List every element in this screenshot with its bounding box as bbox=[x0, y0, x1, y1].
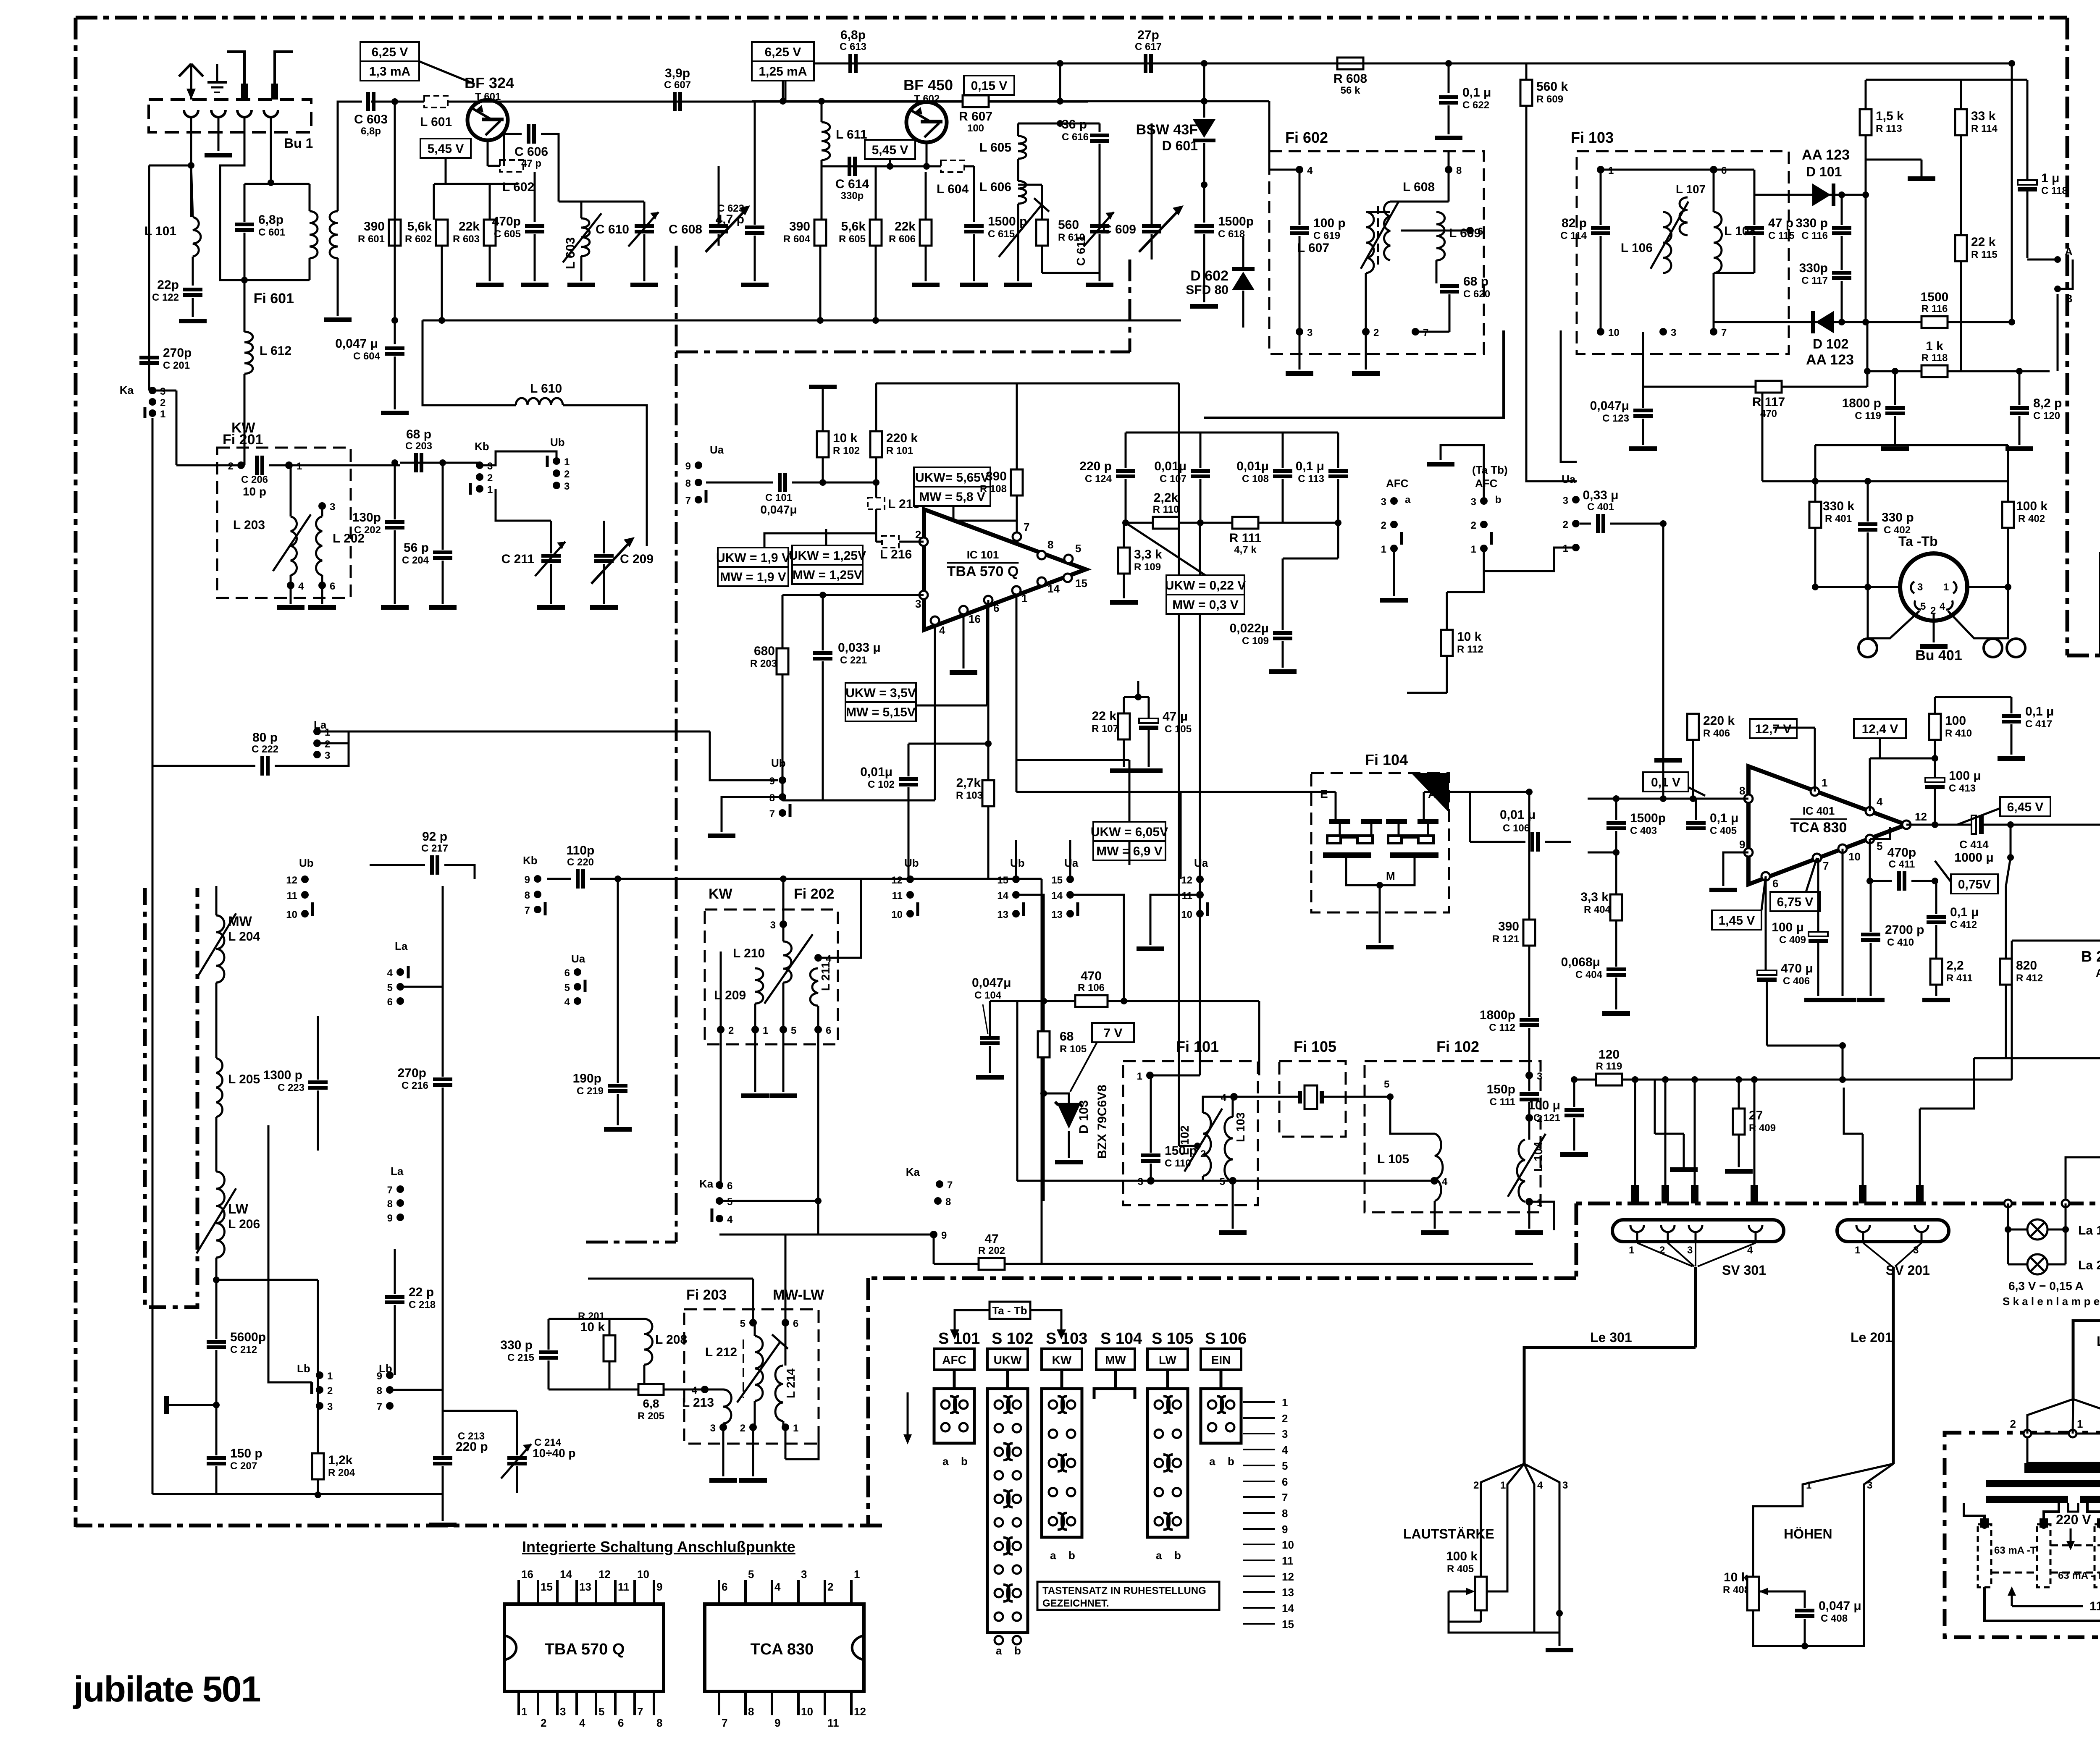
wire bbox=[1434, 1201, 1436, 1229]
junction bbox=[1201, 181, 1207, 188]
svg-text:R 103: R 103 bbox=[956, 790, 983, 801]
wire bbox=[875, 457, 877, 482]
svg-text:1: 1 bbox=[2077, 1418, 2083, 1430]
wire bbox=[1099, 144, 1101, 224]
svg-text:270p: 270p bbox=[398, 1066, 426, 1080]
svg-text:2,2: 2,2 bbox=[1946, 959, 1964, 972]
svg-text:R 402: R 402 bbox=[2018, 513, 2045, 524]
switch contact Ka1 bbox=[149, 409, 165, 420]
ground near C118 bbox=[1908, 176, 1935, 181]
svg-text:4: 4 bbox=[1537, 1480, 1543, 1491]
svg-text:1: 1 bbox=[854, 1568, 860, 1581]
svg-text:4: 4 bbox=[1442, 1176, 1448, 1187]
pin 6 Fi103 bbox=[1710, 165, 1727, 176]
wire bbox=[1179, 1145, 1197, 1147]
junction bbox=[1801, 1643, 1808, 1649]
wire bbox=[963, 614, 965, 668]
svg-text:1: 1 bbox=[327, 1371, 333, 1382]
wire bbox=[550, 521, 552, 553]
svg-text:C 405: C 405 bbox=[1710, 825, 1737, 836]
wire bbox=[1469, 792, 1471, 842]
svg-text:S 102: S 102 bbox=[992, 1330, 1033, 1347]
gang arrow C608 bbox=[706, 208, 748, 252]
resistor R103 bbox=[982, 780, 994, 806]
svg-text:R 102: R 102 bbox=[833, 445, 860, 456]
voltage label UKW= 5,65V bbox=[914, 467, 990, 506]
wire bbox=[822, 661, 824, 800]
wire bbox=[1436, 260, 1438, 283]
wire Le201 bbox=[1892, 1267, 1895, 1464]
wire bbox=[933, 1235, 935, 1264]
wire ground contact bbox=[218, 132, 220, 151]
contact bar bbox=[407, 966, 410, 978]
svg-text:6: 6 bbox=[1282, 1476, 1288, 1488]
ground C404 bbox=[1602, 1011, 1630, 1016]
slug arrow L104 bbox=[1508, 1134, 1546, 1197]
switch contact Kb9 bbox=[525, 874, 541, 886]
wire to left rail bbox=[149, 165, 191, 167]
wire bbox=[1151, 234, 1153, 260]
svg-text:L 216: L 216 bbox=[880, 548, 912, 561]
inductor bbox=[1366, 212, 1374, 273]
svg-text:Bu 1: Bu 1 bbox=[284, 136, 313, 151]
wire 605V stem bbox=[1129, 760, 1131, 822]
junction bbox=[818, 98, 825, 105]
socket contact bbox=[237, 110, 252, 117]
wire bbox=[321, 506, 323, 516]
wire bbox=[487, 100, 489, 102]
wire bbox=[1446, 656, 1448, 693]
svg-text:C 202: C 202 bbox=[354, 524, 381, 536]
pin 6 IC401 bbox=[1761, 872, 1770, 881]
wire bbox=[442, 1494, 444, 1521]
svg-text:390: 390 bbox=[1498, 920, 1519, 933]
wire bbox=[1129, 841, 1131, 865]
svg-text:C 215: C 215 bbox=[507, 1352, 534, 1363]
inductor bbox=[755, 968, 763, 1004]
wire pin6 down bbox=[987, 600, 990, 744]
wire bbox=[908, 787, 910, 879]
junction bbox=[872, 317, 879, 324]
svg-text:2: 2 bbox=[1282, 1412, 1288, 1425]
svg-text:220 k: 220 k bbox=[886, 431, 918, 445]
svg-text:C 614: C 614 bbox=[835, 177, 869, 191]
svg-text:C 409: C 409 bbox=[1779, 934, 1806, 946]
svg-text:D 101: D 101 bbox=[1806, 164, 1842, 179]
svg-text:12: 12 bbox=[598, 1568, 611, 1581]
contact bar bbox=[469, 483, 472, 495]
wire bbox=[394, 102, 396, 320]
svg-text:390: 390 bbox=[986, 469, 1007, 483]
contact bar bbox=[310, 1382, 313, 1394]
capacitor C604 bbox=[385, 346, 404, 356]
svg-text:C 607: C 607 bbox=[664, 79, 691, 91]
svg-text:a: a bbox=[996, 1644, 1002, 1657]
ground C410 bbox=[1857, 998, 1885, 1002]
junction bbox=[1135, 694, 1142, 700]
ground under L203 bbox=[277, 605, 304, 610]
resistor R118 bbox=[1921, 339, 1948, 377]
wire bbox=[973, 166, 975, 222]
svg-text:L 603: L 603 bbox=[564, 237, 577, 269]
pin 7 IC401 bbox=[1813, 854, 1821, 862]
svg-text:AFC: AFC bbox=[1475, 477, 1498, 490]
wire row 3045 bbox=[588, 1278, 753, 1280]
net line 15 bbox=[1243, 1623, 1275, 1625]
antenna plug stub 2 bbox=[271, 52, 293, 100]
wire bbox=[1713, 273, 1715, 332]
svg-text:1: 1 bbox=[487, 484, 493, 495]
svg-text:Ua: Ua bbox=[571, 952, 585, 965]
capacitor C217 bbox=[421, 830, 448, 875]
svg-text:0,068μ: 0,068μ bbox=[1561, 955, 1600, 969]
switch contact Ub3 bbox=[553, 481, 570, 492]
wire antenna contact down bbox=[190, 132, 192, 164]
ground under C610 bbox=[630, 283, 658, 287]
wire bbox=[516, 1411, 518, 1455]
wire bbox=[925, 172, 927, 220]
resistor R610 bbox=[1036, 220, 1048, 246]
inductor bbox=[1384, 202, 1390, 260]
svg-text:9: 9 bbox=[1282, 1523, 1288, 1536]
capacitor C122 bbox=[152, 278, 202, 303]
svg-text:3: 3 bbox=[327, 1401, 333, 1413]
capacitor C608 variable bbox=[709, 224, 728, 233]
slug arrow Fi103 bbox=[1651, 202, 1688, 269]
svg-text:Ub: Ub bbox=[299, 857, 314, 869]
diode D102 AA123 bbox=[1811, 311, 1834, 333]
svg-text:S 101: S 101 bbox=[938, 1330, 980, 1347]
wire bbox=[1528, 1118, 1530, 1140]
svg-text:S 105: S 105 bbox=[1152, 1330, 1193, 1347]
svg-text:R 117: R 117 bbox=[1752, 395, 1785, 409]
junction bbox=[1759, 383, 1766, 390]
pin 7 Fi602 bbox=[1412, 327, 1428, 338]
capacitor C401 bbox=[1583, 488, 1618, 533]
wire bbox=[643, 234, 646, 281]
wire bbox=[1766, 981, 1768, 1046]
svg-text:9: 9 bbox=[941, 1230, 947, 1241]
capacitor C623 bbox=[745, 225, 764, 235]
ground under R603 bbox=[476, 283, 504, 287]
wire bbox=[1525, 63, 1528, 80]
svg-text:E: E bbox=[1320, 787, 1328, 800]
pin 1 IC401 bbox=[1811, 787, 1819, 796]
wire to R602 bbox=[433, 184, 435, 220]
wire pin4 bbox=[1948, 587, 2008, 638]
svg-text:56 k: 56 k bbox=[1341, 85, 1360, 96]
junction bbox=[2062, 1226, 2069, 1233]
wire bbox=[1615, 831, 1617, 852]
wire bbox=[1934, 789, 1936, 825]
svg-text:12: 12 bbox=[1915, 810, 1927, 823]
svg-text:Le 101: Le 101 bbox=[2097, 1334, 2100, 1349]
wire bbox=[1016, 595, 1018, 760]
svg-text:IC 101: IC 101 bbox=[967, 548, 999, 561]
capacitor C616 bbox=[1090, 134, 1109, 143]
svg-text:3,3 k: 3,3 k bbox=[1134, 548, 1162, 561]
wire bbox=[244, 233, 246, 280]
junction bbox=[985, 740, 992, 747]
switch contact La9 bbox=[387, 1213, 404, 1224]
wire bbox=[785, 63, 787, 101]
ground R409 bbox=[1725, 1169, 1753, 1174]
wire bbox=[441, 246, 443, 320]
svg-text:La 1: La 1 bbox=[2078, 1224, 2100, 1237]
wire bbox=[973, 234, 975, 281]
svg-text:C 221: C 221 bbox=[840, 655, 867, 666]
junction bbox=[1864, 368, 1871, 375]
wire bbox=[549, 1389, 644, 1391]
svg-text:5: 5 bbox=[387, 982, 393, 993]
contact bar bbox=[144, 407, 147, 418]
wire bbox=[1151, 1180, 1233, 1182]
wire bbox=[782, 674, 784, 800]
ground pin9 bbox=[1709, 888, 1737, 892]
svg-text:6: 6 bbox=[1478, 226, 1483, 237]
junction bbox=[391, 317, 398, 324]
svg-text:C 112: C 112 bbox=[1489, 1022, 1515, 1033]
wire bbox=[1919, 1109, 1921, 1185]
wire bbox=[718, 234, 720, 246]
switch contact Kb1 bbox=[476, 484, 493, 495]
wire bbox=[1043, 1093, 1045, 1201]
wire down to plug bbox=[1634, 1083, 1636, 1185]
capacitor C610 variable bbox=[628, 212, 659, 246]
wire bbox=[643, 202, 646, 224]
wire bbox=[1844, 1088, 1863, 1134]
wire bbox=[754, 1401, 756, 1427]
capacitor C611 variable bbox=[1084, 212, 1114, 246]
switch contact Ka4 bbox=[716, 1214, 733, 1225]
wire bbox=[1773, 727, 1815, 729]
svg-text:7: 7 bbox=[769, 808, 775, 820]
resistor R607 bbox=[959, 95, 992, 134]
svg-text:6: 6 bbox=[993, 602, 999, 614]
svg-text:4: 4 bbox=[692, 1385, 698, 1396]
wire bbox=[215, 886, 218, 915]
wire bbox=[609, 1361, 611, 1389]
svg-text:6: 6 bbox=[618, 1717, 624, 1729]
pin 1 Fi202 bbox=[751, 1025, 768, 1036]
ground under Bu1 bbox=[205, 153, 232, 157]
wire bbox=[1642, 332, 1644, 408]
wire bbox=[1738, 1135, 1740, 1167]
svg-text:3: 3 bbox=[915, 598, 921, 610]
net line 8 bbox=[1243, 1512, 1275, 1514]
svg-text:L 102: L 102 bbox=[1178, 1125, 1191, 1155]
ground under C623 bbox=[741, 283, 769, 287]
svg-text:0,1 μ: 0,1 μ bbox=[1462, 86, 1491, 100]
svg-text:1500 p: 1500 p bbox=[988, 215, 1027, 228]
wire bbox=[1935, 925, 1937, 959]
ground L105 bbox=[1421, 1230, 1449, 1235]
fan SV201 bbox=[1863, 1243, 1921, 1266]
svg-text:BZX 79C6V8: BZX 79C6V8 bbox=[1095, 1085, 1109, 1159]
net line 4 bbox=[1243, 1449, 1275, 1450]
svg-text:Ua: Ua bbox=[1194, 857, 1208, 869]
inductor bbox=[1663, 212, 1672, 273]
wire bbox=[1043, 1057, 1045, 1093]
wire bbox=[1042, 272, 1100, 274]
svg-text:9: 9 bbox=[525, 874, 530, 886]
wire bbox=[394, 1249, 396, 1294]
wire Ub14 down bbox=[1016, 895, 1044, 1001]
wire bbox=[785, 1235, 787, 1323]
svg-text:1: 1 bbox=[1822, 776, 1827, 789]
svg-text:a: a bbox=[1050, 1549, 1056, 1562]
fuse body bbox=[2095, 1524, 2100, 1587]
wire bbox=[1299, 170, 1301, 225]
wire Fi602 out 2 bbox=[1561, 330, 1577, 462]
svg-text:3: 3 bbox=[1282, 1428, 1288, 1440]
svg-text:6,8p: 6,8p bbox=[840, 28, 866, 42]
svg-text:0,15 V: 0,15 V bbox=[971, 79, 1008, 93]
svg-text:a: a bbox=[1156, 1549, 1162, 1562]
inductor bbox=[1714, 212, 1722, 273]
svg-text:1 k: 1 k bbox=[1926, 339, 1943, 353]
voltage label 0,75V bbox=[1951, 874, 1998, 894]
wire bbox=[1866, 321, 1921, 323]
ground Ub bbox=[708, 834, 735, 838]
wire to L105 bbox=[1390, 1097, 1435, 1134]
pin 2 IC101 bbox=[919, 537, 928, 546]
svg-text:L 610: L 610 bbox=[530, 382, 562, 396]
svg-text:Ub: Ub bbox=[904, 857, 919, 869]
svg-text:5: 5 bbox=[748, 1568, 754, 1581]
svg-text:1,45 V: 1,45 V bbox=[1719, 914, 1755, 928]
svg-text:4,7 k: 4,7 k bbox=[1234, 544, 1257, 556]
wire bbox=[1870, 881, 1872, 932]
wire detector to TaTb bbox=[1761, 387, 1764, 481]
svg-text:C 619: C 619 bbox=[1313, 230, 1340, 241]
wire emitter row bbox=[488, 165, 522, 167]
wire bbox=[1573, 1080, 1575, 1107]
svg-text:4: 4 bbox=[774, 1581, 781, 1593]
voltage label UKW = 1,9 V bbox=[716, 548, 790, 586]
wire bbox=[1203, 63, 1205, 118]
wire 565V to pin7 bbox=[953, 506, 1017, 532]
wire bbox=[705, 1389, 723, 1391]
svg-text:R 109: R 109 bbox=[1134, 561, 1161, 573]
voltage label UKW = 3,5V bbox=[845, 683, 916, 721]
ground stub left bbox=[164, 1396, 169, 1414]
wire C604 bbox=[394, 320, 396, 344]
svg-text:C 220: C 220 bbox=[567, 857, 594, 868]
junction bbox=[1201, 60, 1207, 67]
leader 0,1V bbox=[1688, 787, 1705, 796]
wire bbox=[1202, 1176, 1204, 1181]
wire bbox=[1601, 169, 1754, 171]
svg-text:10: 10 bbox=[1282, 1539, 1294, 1551]
wire bbox=[1870, 758, 1935, 760]
svg-text:HÖHEN: HÖHEN bbox=[1784, 1526, 1832, 1541]
svg-text:12,4 V: 12,4 V bbox=[1862, 722, 1898, 736]
svg-text:2: 2 bbox=[740, 1423, 745, 1434]
ground under C120 bbox=[2005, 446, 2033, 451]
switch contact Ub15 bbox=[997, 875, 1020, 886]
wire Ka1 down left rail bbox=[152, 418, 154, 1494]
svg-text:LW: LW bbox=[1159, 1353, 1177, 1366]
ground R411 bbox=[1922, 998, 1950, 1002]
svg-text:TASTENSATZ IN RUHESTELLUNG: TASTENSATZ IN RUHESTELLUNG bbox=[1042, 1585, 1206, 1596]
wire bbox=[548, 1360, 550, 1389]
wire ground stub bbox=[167, 1404, 216, 1406]
svg-text:L 605: L 605 bbox=[979, 141, 1011, 155]
wire bbox=[821, 160, 823, 166]
fan SV301 bbox=[1637, 1243, 1756, 1266]
svg-text:6,8p: 6,8p bbox=[258, 213, 283, 227]
wire bbox=[792, 482, 876, 484]
fuse wiring bbox=[1964, 1503, 2100, 1621]
wire bbox=[1817, 943, 1819, 996]
capacitor C106 bbox=[1530, 832, 1540, 852]
svg-text:Ta -Tb: Ta -Tb bbox=[1898, 534, 1938, 549]
core line L212 bbox=[743, 1339, 744, 1398]
svg-text:8: 8 bbox=[387, 1198, 393, 1210]
pin 1 Fi101 bbox=[1137, 1071, 1154, 1082]
potentiometer R405 bbox=[1475, 1577, 1487, 1610]
plug pin to SV201 bbox=[1916, 1185, 1924, 1203]
net line 1 bbox=[1243, 1401, 1275, 1403]
resistor R121 bbox=[1492, 920, 1535, 946]
svg-text:L 209: L 209 bbox=[714, 988, 746, 1002]
svg-text:68 p: 68 p bbox=[1463, 275, 1488, 288]
net line 13 bbox=[1243, 1591, 1275, 1593]
svg-text:C 219: C 219 bbox=[577, 1085, 604, 1097]
tuning gang link right drop bbox=[1129, 260, 1131, 352]
wire bbox=[390, 1389, 443, 1391]
wire bbox=[1588, 798, 1693, 800]
switch contact Ka5 bbox=[716, 1196, 732, 1208]
svg-text:R 406: R 406 bbox=[1703, 728, 1730, 739]
wire 12,4V stem bbox=[1879, 738, 1881, 758]
wire bbox=[590, 878, 618, 880]
capacitor C209 variable bbox=[594, 554, 614, 563]
capacitor C613 bbox=[840, 28, 866, 73]
svg-text:10 k: 10 k bbox=[580, 1320, 605, 1334]
junction bbox=[815, 1198, 822, 1204]
wire bbox=[1059, 63, 1061, 101]
svg-text:L 611: L 611 bbox=[836, 128, 867, 142]
svg-text:56 p: 56 p bbox=[404, 541, 429, 555]
capacitor C202 bbox=[352, 511, 404, 536]
ground symbol at antenna bbox=[207, 64, 227, 92]
wire 19V leader bbox=[764, 533, 876, 548]
capacitor C408 bbox=[1795, 1609, 1814, 1618]
wire bbox=[394, 246, 396, 320]
inductor bbox=[291, 516, 297, 575]
svg-text:Lb: Lb bbox=[297, 1362, 310, 1375]
wire pin5 to pin4 bbox=[1233, 1180, 1435, 1182]
pin 16 IC101 bbox=[959, 606, 968, 614]
wire bbox=[782, 983, 785, 1030]
svg-text:UKW = 0,22 V: UKW = 0,22 V bbox=[1165, 579, 1246, 592]
wire bbox=[442, 463, 444, 550]
wire bbox=[2026, 80, 2029, 180]
MOSFET comb 2 of Fi104 bbox=[1386, 819, 1438, 858]
svg-text:8: 8 bbox=[748, 1705, 754, 1718]
svg-text:63 mA -T: 63 mA -T bbox=[1994, 1545, 2037, 1556]
inductor bbox=[216, 915, 224, 983]
plug pin to SV301 bbox=[1662, 1185, 1669, 1203]
switch contact AFCa1 bbox=[1381, 544, 1398, 555]
svg-text:6,25 V: 6,25 V bbox=[372, 45, 408, 59]
wire La row to Ub9 bbox=[710, 731, 778, 780]
junction bbox=[391, 459, 398, 466]
wire bbox=[822, 389, 824, 431]
svg-text:680: 680 bbox=[754, 644, 775, 658]
